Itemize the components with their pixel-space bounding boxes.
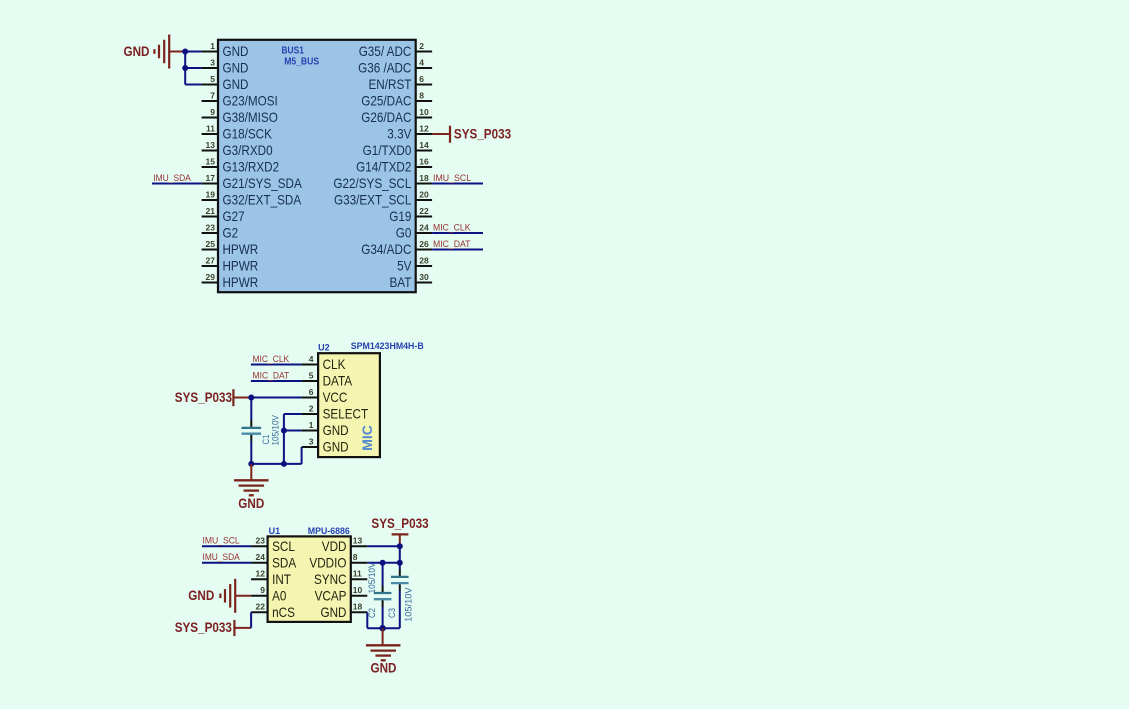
pin 3 (GND) of BUS1 — [202, 57, 249, 75]
svg-text:VDD: VDD — [322, 539, 347, 554]
power port SYS_P033 bar at U1 nCS — [233, 620, 235, 636]
svg-text:23: 23 — [256, 536, 266, 546]
wire U1 pin 13 VDD to junction — [367, 545, 400, 547]
svg-text:GND: GND — [321, 605, 347, 620]
wire U1 pin 8 VDDIO to junctions — [367, 562, 400, 564]
pin 23 (G2) of BUS1 — [202, 222, 239, 240]
pin 30 (BAT) of BUS1 — [390, 272, 433, 290]
label C3 (vertical) — [387, 608, 397, 618]
svg-text:SYS_P033: SYS_P033 — [454, 126, 512, 141]
svg-text:9: 9 — [260, 585, 265, 595]
svg-text:M5_BUS: M5_BUS — [284, 57, 319, 68]
wire C2 bottom to rail — [382, 600, 384, 628]
svg-text:105/10V: 105/10V — [403, 587, 413, 622]
svg-text:105/10V: 105/10V — [270, 414, 280, 445]
svg-text:G33/EXT_SCL: G33/EXT_SCL — [334, 193, 412, 208]
junction GND rail — [379, 625, 385, 631]
svg-text:GND: GND — [323, 440, 349, 455]
pin 18 (GND) of U1 — [321, 602, 368, 620]
svg-text:SYNC: SYNC — [314, 572, 347, 587]
wire VDD junction down to C3 — [399, 546, 401, 576]
svg-text:MIC_DAT: MIC_DAT — [253, 370, 290, 380]
svg-text:26: 26 — [419, 239, 429, 249]
svg-text:GND: GND — [223, 44, 249, 59]
junction rail right — [281, 461, 287, 467]
svg-text:25: 25 — [206, 239, 216, 249]
wire net IMU_SDA at pin 17 — [152, 183, 202, 185]
value 105/10V of C3 (vertical) — [403, 587, 413, 622]
pin 22 (nCS) of U1 — [251, 602, 295, 620]
wire junction to earth (red) — [382, 628, 384, 644]
svg-text:G32/EXT_SDA: G32/EXT_SDA — [223, 193, 302, 208]
wire junction to pin 1 — [185, 51, 201, 53]
ground symbol under C1 — [234, 480, 268, 495]
pin 10 (VCAP) of U1 — [315, 585, 368, 603]
pin 6 (VCC) of U2 — [302, 387, 348, 405]
net label IMU_SDA — [153, 173, 191, 183]
svg-text:IMU_SDA: IMU_SDA — [203, 552, 241, 562]
svg-text:27: 27 — [206, 255, 216, 265]
pin 17 (G21/SYS_SDA) of BUS1 — [202, 173, 303, 191]
svg-text:IMU_SCL: IMU_SCL — [203, 536, 240, 546]
designator U2 — [318, 342, 330, 352]
pin 16 (G14/TXD2) of BUS1 — [356, 156, 432, 174]
wire VCC junction down to C1 — [250, 398, 252, 428]
svg-text:9: 9 — [210, 107, 215, 117]
svg-text:4: 4 — [309, 354, 314, 364]
capacitor C1 plates — [242, 428, 262, 434]
svg-text:23: 23 — [206, 222, 216, 232]
svg-text:12: 12 — [419, 123, 429, 133]
svg-text:GND: GND — [124, 44, 150, 59]
junction VDDIO right — [397, 560, 403, 566]
pin 13 (G3/RXD0) of BUS1 — [202, 140, 273, 158]
microphone U2 SPM1423HM4H-B body — [318, 353, 380, 457]
wire U2 pin 2 SELECT down — [284, 414, 302, 464]
svg-text:VCAP: VCAP — [315, 589, 347, 604]
wire junction to U2 pin 6 — [251, 397, 301, 399]
svg-text:C3: C3 — [387, 608, 397, 618]
pin 6 (EN/RST) of BUS1 — [369, 74, 433, 92]
pin 3 (GND) of U2 — [302, 436, 349, 454]
junction VDDIO left — [380, 560, 386, 566]
svg-text:SYS_P033: SYS_P033 — [371, 516, 429, 531]
svg-text:G18/SCK: G18/SCK — [223, 127, 272, 142]
pin 11 (SYNC) of U1 — [314, 569, 367, 587]
pin 26 (G34/ADC) of BUS1 — [361, 239, 432, 257]
designator BUS1 — [282, 45, 305, 56]
net label MIC_DAT — [433, 239, 471, 249]
wire corner up to U1 pin 22 — [250, 612, 252, 628]
pin 18 (G22/SYS_SCL) of BUS1 — [333, 173, 432, 191]
svg-text:U1: U1 — [269, 526, 281, 536]
svg-text:3.3V: 3.3V — [387, 127, 412, 142]
svg-text:11: 11 — [206, 123, 215, 133]
pin 5 (DATA) of U2 — [302, 370, 353, 388]
comment M5_BUS — [284, 57, 319, 68]
value 105/10V of C1 (vertical) — [270, 414, 280, 445]
net label MIC_CLK at U2 — [253, 354, 290, 364]
pin 27 (HPWR) of BUS1 — [202, 255, 259, 273]
wire net MIC_DAT at pin 26 — [432, 249, 483, 251]
wire VDDIO junction down to C2 — [382, 563, 384, 592]
svg-text:5: 5 — [309, 370, 314, 380]
wire vertical GND bus — [184, 52, 186, 85]
svg-text:nCS: nCS — [272, 605, 295, 620]
pin 7 (G23/MOSI) of BUS1 — [202, 90, 278, 108]
svg-text:18: 18 — [419, 173, 429, 183]
svg-text:G0: G0 — [396, 226, 412, 241]
svg-text:2: 2 — [309, 403, 314, 413]
svg-text:5: 5 — [210, 74, 215, 84]
svg-text:13: 13 — [206, 140, 216, 150]
svg-text:SDA: SDA — [272, 556, 297, 571]
pin 2 (G35/ ADC) of BUS1 — [359, 41, 432, 59]
svg-text:24: 24 — [419, 222, 429, 232]
svg-text:20: 20 — [419, 189, 429, 199]
power port SYS_P033 bar at U2 VCC — [232, 389, 234, 406]
junction U2 pin1 — [281, 428, 287, 434]
wire net IMU_SCL at pin 18 — [432, 183, 483, 185]
net label IMU_SCL — [433, 173, 471, 183]
svg-text:DATA: DATA — [323, 374, 353, 389]
svg-text:GND: GND — [188, 588, 214, 603]
power port SYS_P033 bar at pin 12 — [449, 126, 451, 143]
svg-text:INT: INT — [272, 572, 291, 587]
svg-text:GND: GND — [371, 661, 397, 676]
imu U1 MPU-6886 body — [268, 536, 351, 622]
wire C3 bottom to rail — [399, 584, 401, 628]
pin 1 (GND) of U2 — [302, 420, 349, 438]
pin 13 (VDD) of U1 — [322, 536, 368, 554]
junction at U2 VCC — [248, 395, 254, 401]
wire GND rail under U2 — [251, 463, 301, 465]
svg-text:SYS_P033: SYS_P033 — [175, 390, 233, 405]
ground symbol under U1 — [366, 645, 401, 660]
svg-text:1: 1 — [210, 41, 215, 51]
comment MPU-6886 — [308, 526, 350, 536]
svg-text:24: 24 — [256, 552, 266, 562]
svg-text:HPWR: HPWR — [223, 259, 259, 274]
svg-text:VCC: VCC — [323, 390, 348, 405]
svg-text:29: 29 — [206, 272, 216, 282]
wire net MIC_CLK at pin 24 — [432, 232, 483, 234]
svg-text:G19: G19 — [389, 209, 411, 224]
svg-text:MIC: MIC — [359, 425, 375, 451]
svg-text:G22/SYS_SCL: G22/SYS_SCL — [333, 176, 411, 191]
svg-text:HPWR: HPWR — [223, 242, 259, 257]
wire C1 bottom to GND junction — [250, 435, 252, 464]
capacitor C2 plates — [374, 593, 392, 599]
pin 23 (SCL) of U1 — [251, 536, 295, 554]
wire net IMU_SCL to U1 pin 23 — [202, 545, 251, 547]
pin 1 (GND) of BUS1 — [202, 41, 249, 59]
pin 21 (G27) of BUS1 — [202, 206, 245, 224]
pin 20 (G33/EXT_SCL) of BUS1 — [334, 189, 432, 207]
pin 4 (CLK) of U2 — [302, 354, 346, 372]
pin 28 (5V) of BUS1 — [397, 255, 432, 273]
svg-text:SELECT: SELECT — [323, 407, 369, 422]
svg-text:HPWR: HPWR — [223, 275, 259, 290]
power port SYS_P033 text at U1 nCS — [175, 620, 233, 635]
svg-text:14: 14 — [419, 140, 429, 150]
wire net MIC_CLK to U2 pin 4 — [251, 364, 302, 366]
pin 8 (G25/DAC) of BUS1 — [361, 90, 432, 108]
pin 25 (HPWR) of BUS1 — [202, 239, 259, 257]
label GND under C1 — [238, 496, 264, 511]
svg-text:BUS1: BUS1 — [282, 45, 305, 56]
svg-text:2: 2 — [419, 41, 424, 51]
power port SYS_P033 text above VDD — [371, 516, 429, 531]
svg-text:13: 13 — [353, 536, 363, 546]
svg-text:12: 12 — [256, 569, 266, 579]
net label MIC_DAT at U2 — [253, 370, 290, 380]
svg-text:G35/ ADC: G35/ ADC — [359, 44, 412, 59]
svg-text:105/10V: 105/10V — [367, 562, 377, 594]
svg-text:10: 10 — [419, 107, 429, 117]
svg-text:SYS_P033: SYS_P033 — [175, 620, 233, 635]
svg-text:U2: U2 — [318, 342, 330, 352]
pin 2 (SELECT) of U2 — [302, 403, 369, 421]
svg-text:GND: GND — [238, 496, 264, 511]
pin 4 (G36 /ADC) of BUS1 — [358, 57, 432, 75]
svg-text:MIC_CLK: MIC_CLK — [253, 354, 290, 364]
svg-text:G25/DAC: G25/DAC — [361, 94, 411, 109]
designator U1 — [269, 526, 281, 536]
svg-text:18: 18 — [353, 602, 363, 612]
wire GND port to junction (red) — [169, 51, 185, 53]
svg-text:CLK: CLK — [323, 357, 346, 372]
wire port to junction (red) at VCC — [233, 397, 251, 399]
svg-text:4: 4 — [419, 57, 424, 67]
pin 5 (GND) of BUS1 — [202, 74, 249, 92]
wire net IMU_SDA to U1 pin 24 — [202, 562, 251, 564]
power port SYS_P033 bar above VDD — [392, 533, 409, 535]
svg-text:GND: GND — [223, 77, 249, 92]
svg-text:VDDIO: VDDIO — [309, 556, 346, 571]
pin 15 (G13/RXD2) of BUS1 — [202, 156, 280, 174]
svg-text:G21/SYS_SDA: G21/SYS_SDA — [223, 176, 303, 191]
svg-text:G1/TXD0: G1/TXD0 — [363, 143, 412, 158]
svg-text:G14/TXD2: G14/TXD2 — [356, 160, 411, 175]
junction at pin 1 — [182, 49, 188, 55]
svg-text:21: 21 — [206, 206, 216, 216]
svg-text:A0: A0 — [272, 589, 287, 604]
wire U1 pin 18 GND down to rail — [367, 612, 400, 628]
junction rail left — [248, 461, 254, 467]
svg-text:G26/DAC: G26/DAC — [361, 110, 411, 125]
label C1 (vertical) — [261, 435, 271, 445]
svg-text:8: 8 — [353, 552, 358, 562]
value 105/10V of C2 (vertical) — [367, 562, 377, 594]
power port GND (left of BUS1) — [124, 35, 170, 69]
wire U2 pin 1 GND to vertical — [284, 430, 302, 432]
junction VDD — [397, 543, 403, 549]
svg-text:28: 28 — [419, 255, 429, 265]
pin 8 (VDDIO) of U1 — [309, 552, 367, 570]
wire port to corner (red) at nCS — [234, 627, 251, 629]
svg-text:GND: GND — [323, 423, 349, 438]
connector BUS1 (M5_BUS) body — [218, 40, 416, 292]
pin 19 (G32/EXT_SDA) of BUS1 — [202, 189, 302, 207]
svg-text:22: 22 — [256, 602, 266, 612]
net label IMU_SDA at U1 — [203, 552, 241, 562]
svg-text:6: 6 — [419, 74, 424, 84]
wire GND port to U1 pin 9 (red) — [235, 595, 251, 597]
svg-text:G3/RXD0: G3/RXD0 — [223, 143, 273, 158]
wire junction to earth (red) — [250, 464, 252, 480]
wire pin 12 to power port (red) — [432, 133, 449, 135]
svg-text:5V: 5V — [397, 259, 412, 274]
svg-text:3: 3 — [210, 57, 215, 67]
pin 12 (INT) of U1 — [251, 569, 291, 587]
svg-text:G23/MOSI: G23/MOSI — [223, 94, 278, 109]
svg-text:G34/ADC: G34/ADC — [361, 242, 411, 257]
svg-text:22: 22 — [419, 206, 429, 216]
svg-text:G38/MISO: G38/MISO — [223, 110, 278, 125]
svg-text:30: 30 — [419, 272, 429, 282]
power port GND at U1 A0 — [188, 579, 235, 613]
svg-text:7: 7 — [210, 90, 215, 100]
svg-text:G27: G27 — [223, 209, 245, 224]
svg-text:19: 19 — [206, 189, 216, 199]
wire to pin 5 — [185, 84, 201, 86]
label C2 (vertical) — [367, 608, 377, 618]
pin 22 (G19) of BUS1 — [389, 206, 432, 224]
label MIC (vertical) — [359, 425, 375, 451]
pin 10 (G26/DAC) of BUS1 — [361, 107, 432, 125]
svg-text:BAT: BAT — [390, 275, 412, 290]
svg-text:G2: G2 — [223, 226, 239, 241]
svg-text:8: 8 — [419, 90, 424, 100]
wire port bar down to VDD junction (red) — [399, 536, 401, 547]
svg-text:SCL: SCL — [272, 539, 295, 554]
svg-text:MIC_CLK: MIC_CLK — [433, 222, 471, 232]
power port SYS_P033 text at pin 12 — [454, 126, 512, 141]
svg-text:10: 10 — [353, 585, 363, 595]
pin 9 (A0) of U1 — [251, 585, 287, 603]
svg-text:IMU_SCL: IMU_SCL — [433, 173, 471, 183]
svg-text:16: 16 — [419, 156, 429, 166]
pin 24 (G0) of BUS1 — [396, 222, 432, 240]
junction at pin 3 — [182, 65, 188, 71]
svg-text:17: 17 — [206, 173, 216, 183]
capacitor C3 plates — [391, 577, 409, 583]
label GND under U1 — [371, 661, 397, 676]
net label IMU_SCL at U1 — [203, 536, 240, 546]
svg-text:MPU-6886: MPU-6886 — [308, 526, 350, 536]
pin 29 (HPWR) of BUS1 — [202, 272, 259, 290]
wire net MIC_DAT to U2 pin 5 — [251, 380, 302, 382]
svg-text:IMU_SDA: IMU_SDA — [153, 173, 191, 183]
pin 12 (3.3V) of BUS1 — [387, 123, 432, 141]
svg-text:G36 /ADC: G36 /ADC — [358, 61, 411, 76]
pin 24 (SDA) of U1 — [251, 552, 297, 570]
svg-text:EN/RST: EN/RST — [369, 77, 412, 92]
net label MIC_CLK — [433, 222, 471, 232]
svg-text:3: 3 — [309, 436, 314, 446]
svg-text:SPM1423HM4H-B: SPM1423HM4H-B — [351, 341, 424, 351]
svg-text:G13/RXD2: G13/RXD2 — [223, 160, 280, 175]
svg-text:15: 15 — [206, 156, 216, 166]
pin 14 (G1/TXD0) of BUS1 — [363, 140, 433, 158]
wire junction to pin 3 — [185, 67, 201, 69]
comment SPM1423HM4H-B — [351, 341, 424, 351]
svg-text:MIC_DAT: MIC_DAT — [433, 239, 471, 249]
svg-text:11: 11 — [353, 569, 362, 579]
svg-text:GND: GND — [223, 61, 249, 76]
power port SYS_P033 text at U2 VCC — [175, 390, 233, 405]
pin 11 (G18/SCK) of BUS1 — [202, 123, 272, 141]
pin 9 (G38/MISO) of BUS1 — [202, 107, 278, 125]
wire U2 pin 3 down to rail — [301, 447, 303, 464]
svg-text:6: 6 — [309, 387, 314, 397]
svg-text:1: 1 — [309, 420, 314, 430]
